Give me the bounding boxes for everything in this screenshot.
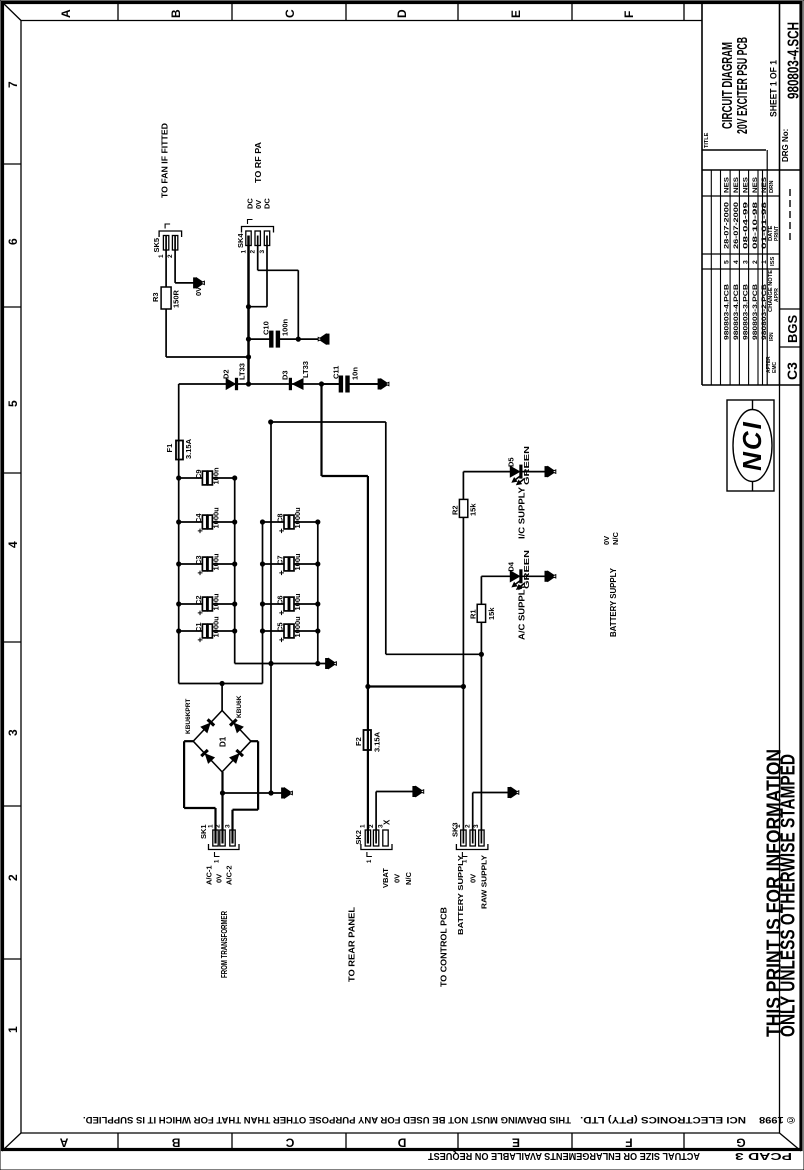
svg-text:3: 3: [224, 824, 231, 828]
svg-text:6: 6: [6, 238, 20, 245]
svg-text:7: 7: [6, 81, 20, 88]
svg-text:APPR: APPR: [774, 288, 780, 302]
svg-text:2: 2: [465, 824, 472, 828]
svg-text:5: 5: [6, 400, 20, 407]
svg-text:4: 4: [733, 260, 740, 264]
svg-text:10n: 10n: [351, 367, 360, 380]
svg-text:1: 1: [6, 1026, 20, 1033]
svg-text:DRG No:: DRG No:: [781, 129, 790, 162]
svg-text:© 1998: © 1998: [759, 1114, 795, 1125]
svg-text:D: D: [397, 1136, 406, 1150]
svg-text:DC: DC: [263, 198, 272, 209]
svg-text:150R: 150R: [172, 289, 181, 308]
svg-text:1: 1: [761, 260, 768, 264]
svg-text:0V: 0V: [393, 874, 402, 883]
svg-text:4: 4: [6, 541, 20, 548]
svg-text:A/C SUPPLY: A/C SUPPLY: [518, 583, 527, 640]
svg-text:0V: 0V: [194, 287, 203, 296]
svg-text:D3: D3: [280, 370, 289, 380]
svg-text:C1: C1: [194, 622, 203, 632]
svg-text:NES: NES: [761, 176, 768, 193]
svg-text:100u: 100u: [211, 593, 220, 611]
svg-text:2: 2: [752, 260, 759, 264]
svg-text:A: A: [59, 1136, 68, 1150]
svg-text:2: 2: [167, 254, 174, 258]
svg-text:+: +: [277, 570, 287, 575]
svg-text:08-10-98: 08-10-98: [752, 202, 759, 249]
svg-text:VBAT: VBAT: [381, 868, 390, 888]
svg-text:B: B: [169, 9, 183, 18]
svg-text:TITLE: TITLE: [704, 132, 710, 148]
svg-text:15k: 15k: [487, 607, 496, 620]
svg-text:15k: 15k: [469, 503, 478, 516]
svg-text:N/C: N/C: [404, 872, 413, 886]
svg-text:NES: NES: [743, 176, 750, 193]
svg-text:2: 2: [6, 874, 20, 881]
svg-text:SK5: SK5: [152, 238, 161, 253]
svg-text:C10: C10: [262, 321, 271, 335]
svg-text:C9: C9: [194, 469, 203, 479]
svg-text:08-04-99: 08-04-99: [743, 202, 750, 249]
svg-text:NES: NES: [724, 176, 731, 193]
svg-text:3.15A: 3.15A: [373, 731, 382, 752]
svg-text:3: 3: [6, 729, 20, 736]
svg-text:+: +: [277, 637, 287, 642]
svg-text:1: 1: [207, 824, 214, 828]
svg-text:A/C-2: A/C-2: [225, 865, 234, 885]
svg-text:D: D: [395, 9, 409, 18]
svg-text:C: C: [285, 1136, 294, 1150]
svg-text:KBU6KPRT: KBU6KPRT: [185, 699, 192, 734]
svg-text:3.15A: 3.15A: [184, 438, 193, 459]
svg-text:0V: 0V: [215, 874, 224, 883]
svg-text:980803-4.PCB: 980803-4.PCB: [724, 284, 731, 340]
svg-text:C3: C3: [784, 362, 800, 380]
svg-text:C11: C11: [332, 366, 341, 379]
svg-text:F2: F2: [354, 737, 363, 746]
svg-text:1: 1: [240, 250, 247, 254]
svg-text:3: 3: [743, 260, 750, 264]
svg-text:R3: R3: [151, 292, 160, 302]
svg-text:+: +: [277, 528, 287, 533]
svg-text:0V: 0V: [602, 536, 611, 545]
svg-text:F1: F1: [165, 444, 174, 453]
svg-text:2: 2: [250, 250, 257, 254]
svg-text:100u: 100u: [211, 553, 220, 571]
svg-text:C5: C5: [276, 622, 285, 632]
svg-text:F: F: [622, 11, 636, 18]
svg-text:100u: 100u: [293, 553, 302, 571]
svg-text:5: 5: [724, 260, 731, 264]
svg-text:D2: D2: [222, 369, 231, 379]
svg-text:TO FAN IF FITTED: TO FAN IF FITTED: [160, 123, 169, 198]
svg-text:100n: 100n: [281, 318, 290, 336]
svg-text:1000u: 1000u: [293, 616, 302, 638]
svg-text:PRINT: PRINT: [774, 226, 780, 241]
svg-text:DRN: DRN: [769, 180, 775, 193]
svg-text:B: B: [171, 1136, 180, 1150]
svg-text:NCI ELECTRONICS (PTY) LTD.: NCI ELECTRONICS (PTY) LTD.: [580, 1114, 746, 1125]
svg-text:NCI: NCI: [737, 420, 767, 471]
svg-text:A: A: [59, 9, 73, 18]
svg-text:SK2: SK2: [354, 830, 363, 845]
svg-text:G: G: [736, 1136, 745, 1150]
svg-text:LT33: LT33: [238, 363, 247, 380]
svg-text:SK4: SK4: [236, 233, 245, 248]
svg-text:C: C: [283, 9, 297, 18]
svg-text:C6: C6: [276, 595, 285, 605]
svg-text:+: +: [195, 570, 205, 575]
svg-text:BGS: BGS: [785, 315, 800, 344]
svg-text:980803-3.PCB: 980803-3.PCB: [752, 284, 759, 340]
svg-text:C4: C4: [194, 513, 203, 523]
svg-text:A/C-1: A/C-1: [205, 865, 214, 885]
svg-text:26-07-2000: 26-07-2000: [733, 202, 740, 249]
svg-text:R1: R1: [469, 609, 478, 619]
svg-text:0V: 0V: [469, 874, 478, 883]
svg-text:980803-3.PCB: 980803-3.PCB: [743, 284, 750, 340]
svg-text:980803-4.PCB: 980803-4.PCB: [733, 284, 740, 340]
svg-text:2: 2: [368, 824, 375, 828]
svg-text:1: 1: [455, 824, 462, 828]
svg-text:1000u: 1000u: [293, 507, 302, 529]
svg-text:C8: C8: [276, 513, 285, 523]
svg-text:TO CONTROL PCB: TO CONTROL PCB: [440, 907, 449, 987]
svg-text:X: X: [383, 819, 392, 825]
svg-text:R2: R2: [451, 505, 460, 515]
svg-text:1: 1: [360, 824, 367, 828]
svg-text:+: +: [195, 528, 205, 533]
svg-text:SHEET 1 OF 1: SHEET 1 OF 1: [769, 59, 780, 117]
svg-text:1: 1: [215, 859, 221, 863]
svg-text:+: +: [277, 610, 287, 615]
svg-text:01-01-98: 01-01-98: [761, 202, 768, 249]
svg-text:TO RF PA: TO RF PA: [254, 142, 263, 183]
svg-text:+: +: [195, 610, 205, 615]
svg-text:1000u: 1000u: [211, 507, 220, 529]
svg-text:20V EXCITER PSU PCB: 20V EXCITER PSU PCB: [734, 37, 751, 134]
svg-text:F: F: [625, 1136, 632, 1150]
svg-text:E: E: [509, 10, 523, 18]
svg-text:THIS DRAWING MUST NOT BE USED: THIS DRAWING MUST NOT BE USED FOR ANY PU…: [83, 1114, 571, 1125]
svg-text:C2: C2: [194, 595, 203, 605]
svg-text:3: 3: [259, 250, 266, 254]
svg-text:1000u: 1000u: [211, 616, 220, 638]
svg-text:LT33: LT33: [301, 361, 310, 378]
svg-text:EMC: EMC: [772, 362, 778, 374]
svg-text:IRN: IRN: [769, 332, 775, 341]
svg-text:BATTERY SUPPLY: BATTERY SUPPLY: [609, 567, 618, 637]
svg-text:KBU6K: KBU6K: [236, 695, 243, 718]
svg-text:FROM TRANSFORMER: FROM TRANSFORMER: [220, 911, 229, 978]
svg-text:GREEN: GREEN: [522, 446, 531, 485]
svg-text:I/C SUPPLY: I/C SUPPLY: [518, 486, 527, 539]
svg-text:E: E: [512, 1136, 520, 1150]
svg-text:NES: NES: [733, 176, 740, 193]
svg-text:RAW SUPPLY: RAW SUPPLY: [480, 855, 489, 909]
svg-text:D5: D5: [507, 457, 516, 467]
svg-text:100n: 100n: [211, 467, 220, 485]
svg-text:PCAD 3: PCAD 3: [734, 1150, 792, 1161]
svg-text:100u: 100u: [293, 593, 302, 611]
svg-text:980803-2.PCB: 980803-2.PCB: [761, 284, 768, 340]
svg-text:1: 1: [158, 254, 165, 258]
svg-text:NES: NES: [752, 176, 759, 193]
svg-text:980803-4.SCH: 980803-4.SCH: [786, 22, 803, 99]
svg-text:C7: C7: [276, 555, 285, 565]
svg-text:D1: D1: [219, 736, 228, 747]
svg-text:BATTERY SUPPLY: BATTERY SUPPLY: [456, 855, 465, 935]
svg-text:TO REAR PANEL: TO REAR PANEL: [348, 907, 357, 982]
svg-text:2: 2: [214, 824, 221, 828]
svg-text:3: 3: [473, 824, 480, 828]
svg-text:ACTUAL SIZE OR ENLARGEMENTS AV: ACTUAL SIZE OR ENLARGEMENTS AVAILABLE ON…: [428, 1150, 700, 1161]
svg-text:D4: D4: [507, 561, 516, 571]
svg-text:1: 1: [367, 859, 373, 863]
svg-text:ONLY UNLESS OTHERWISE STAMPED: ONLY UNLESS OTHERWISE STAMPED: [778, 754, 800, 1037]
svg-text:C3: C3: [194, 555, 203, 565]
svg-text:N/C: N/C: [611, 532, 620, 546]
svg-text:+: +: [195, 637, 205, 642]
svg-text:ISS: ISS: [770, 257, 776, 266]
svg-text:28-07-2000: 28-07-2000: [724, 202, 731, 249]
